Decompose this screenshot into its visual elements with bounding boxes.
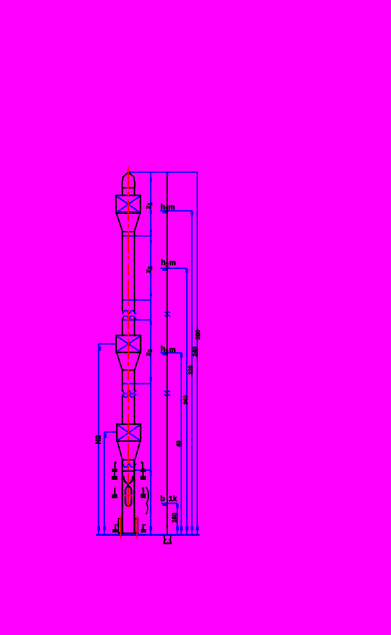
- svg-text:40: 40: [177, 441, 183, 447]
- svg-text:b: b: [160, 494, 165, 503]
- svg-text:1k: 1k: [169, 494, 178, 503]
- svg-text:320: 320: [188, 365, 194, 374]
- svg-text:380: 380: [196, 329, 202, 340]
- svg-text:m: m: [168, 203, 175, 212]
- svg-text:240: 240: [193, 346, 199, 357]
- svg-text:m: m: [169, 345, 176, 354]
- svg-text:160: 160: [172, 512, 178, 523]
- svg-text:340: 340: [183, 395, 189, 404]
- svg-text:m: m: [169, 258, 176, 267]
- svg-text:N2: N2: [95, 435, 102, 444]
